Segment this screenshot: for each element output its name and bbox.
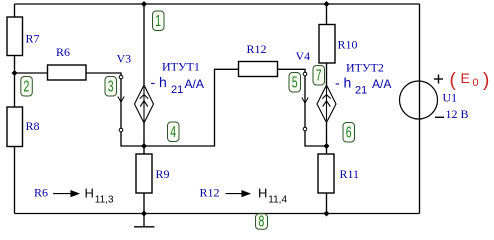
wire R12 to V4 branch xyxy=(278,69,306,72)
label -h21 A/A left xyxy=(151,74,204,96)
junction node 1 dot xyxy=(141,1,147,7)
svg-text:R8: R8 xyxy=(26,119,40,133)
V3 controlling-branch arrow xyxy=(118,97,124,103)
wire R10 to diamond2 xyxy=(326,63,328,85)
svg-text:H: H xyxy=(258,186,267,201)
wire bottom rail xyxy=(15,213,420,215)
svg-text:R6: R6 xyxy=(34,185,48,199)
junction node 4 dot xyxy=(141,143,147,149)
resistor R11 xyxy=(318,154,359,193)
svg-text:R11: R11 xyxy=(340,167,360,181)
junction R11 bottom dot xyxy=(324,211,330,217)
V4 controlling-branch terminal circle lower xyxy=(303,127,307,131)
V4 controlling-branch terminal circle upper xyxy=(303,72,307,76)
wire V3 branch middle xyxy=(120,79,122,128)
arrow R6 to H xyxy=(53,191,79,197)
wire V4 branch to node6 rail xyxy=(305,131,327,146)
svg-text:8: 8 xyxy=(259,212,265,230)
node 6 xyxy=(343,123,355,143)
svg-text:11,4: 11,4 xyxy=(268,195,287,206)
wire diamond1 to node4 xyxy=(143,123,145,146)
svg-text:H: H xyxy=(85,186,94,201)
svg-text:R12: R12 xyxy=(247,42,267,56)
V3 controlling-branch terminal circle upper xyxy=(119,75,123,79)
svg-text:А/А: А/А xyxy=(372,77,391,91)
svg-text:E: E xyxy=(461,70,470,86)
junction node 2 dot xyxy=(12,70,18,76)
node 4 xyxy=(168,122,180,142)
svg-text:R6: R6 xyxy=(56,45,70,59)
label (E0) red xyxy=(450,70,490,91)
svg-text:11,3: 11,3 xyxy=(95,195,114,206)
node 2 xyxy=(21,77,33,97)
svg-text:- h: - h xyxy=(151,74,167,90)
svg-text:21: 21 xyxy=(355,85,367,97)
node 7 xyxy=(313,66,325,86)
node 3 xyxy=(105,77,117,97)
svg-text:R9: R9 xyxy=(156,167,170,181)
node 1 xyxy=(153,11,165,31)
wire left rail upper xyxy=(14,4,16,17)
resistor R7 xyxy=(7,17,40,56)
wire top rail xyxy=(15,3,420,5)
voltage source U1 circle xyxy=(400,81,438,119)
svg-text:6: 6 xyxy=(346,124,352,142)
label H11,3 xyxy=(85,186,114,206)
wire node1 drop xyxy=(143,4,145,85)
current source U4 ITUT2 diamond xyxy=(317,85,336,123)
wire R9 to bottom rail xyxy=(143,193,145,214)
svg-text:R7: R7 xyxy=(26,32,40,46)
arrow R12 to H xyxy=(226,191,250,197)
svg-text:U1: U1 xyxy=(443,91,458,105)
resistor R9 xyxy=(136,154,170,193)
label H11,4 xyxy=(258,186,287,206)
svg-text:ИТУТ1: ИТУТ1 xyxy=(162,60,200,74)
svg-text:3: 3 xyxy=(108,78,114,96)
svg-text:2: 2 xyxy=(24,78,30,96)
svg-text:ИТУТ2: ИТУТ2 xyxy=(346,61,384,75)
label minus sign xyxy=(435,116,444,118)
svg-text:(: ( xyxy=(450,70,457,91)
wire left rail lower xyxy=(14,147,16,214)
svg-text:- h: - h xyxy=(335,75,351,91)
node 5 xyxy=(289,73,301,93)
wire R10 top xyxy=(326,4,328,25)
svg-text:0: 0 xyxy=(473,77,479,89)
svg-text:5: 5 xyxy=(292,74,298,92)
svg-text:21: 21 xyxy=(171,84,183,96)
svg-text:V4: V4 xyxy=(296,49,311,63)
resistor R6 xyxy=(48,45,87,80)
wire right rail xyxy=(419,4,421,214)
svg-text:А/А: А/А xyxy=(185,77,204,91)
wire V4 branch middle xyxy=(304,76,306,127)
wire node2 to R6 xyxy=(15,72,48,74)
resistor R12 xyxy=(239,42,278,77)
svg-text:): ) xyxy=(483,70,489,91)
label plus sign xyxy=(434,75,443,84)
label -h21 A/A right xyxy=(335,75,391,97)
V4 controlling-branch arrow xyxy=(302,98,308,104)
svg-text:4: 4 xyxy=(170,123,176,141)
wire R11 to bottom rail xyxy=(326,193,328,214)
svg-text:V3: V3 xyxy=(117,52,132,66)
wire R6 to V3 branch xyxy=(86,73,121,75)
resistor R10 xyxy=(319,25,358,64)
wire node6 to R11 xyxy=(326,146,328,154)
wire diamond2 to node6 xyxy=(326,123,328,147)
svg-text:12 В: 12 В xyxy=(446,107,469,121)
svg-text:R12: R12 xyxy=(200,185,220,199)
ground xyxy=(134,214,155,227)
resistor R8 xyxy=(7,107,40,147)
svg-text:1: 1 xyxy=(155,12,161,30)
V3 controlling-branch terminal circle lower xyxy=(119,128,123,132)
svg-text:R10: R10 xyxy=(338,38,358,52)
junction node 6 dot xyxy=(324,143,330,149)
junction R10 top dot xyxy=(324,1,330,7)
junction ground dot xyxy=(141,211,147,217)
svg-text:7: 7 xyxy=(316,67,322,85)
wire node4 to R9 xyxy=(143,146,145,154)
current source U3 ITUT1 diamond xyxy=(135,85,154,123)
node 8 xyxy=(256,212,268,230)
wire left rail between R7 and R8 xyxy=(14,56,16,108)
wire V3 branch to node4 rail xyxy=(121,69,239,146)
